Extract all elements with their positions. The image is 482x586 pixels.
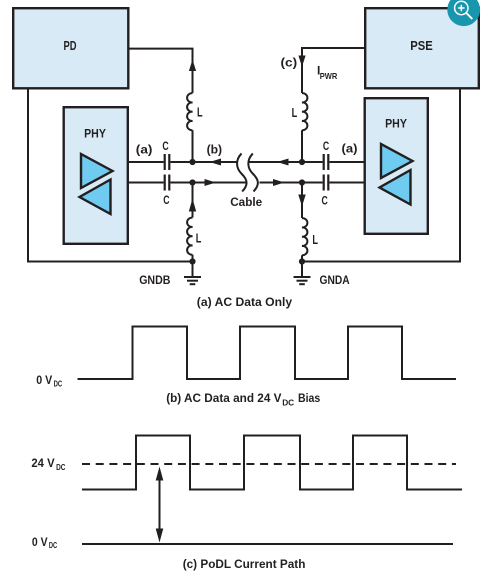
- svg-text:DC: DC: [56, 462, 65, 472]
- svg-text:C: C: [162, 139, 169, 153]
- capacitor C3 (right upper): [324, 154, 329, 170]
- svg-text:DC: DC: [49, 540, 57, 550]
- PSE box: [365, 8, 479, 88]
- arrow down toward inductor: [298, 195, 305, 207]
- cable break left squiggle: [237, 154, 247, 192]
- wire C4 to PHY right lower: [330, 182, 365, 184]
- dashed 24 VDC line: [82, 463, 456, 465]
- inductor L bottom-right: [302, 218, 307, 255]
- svg-text:PD: PD: [64, 38, 77, 53]
- svg-text:PSE: PSE: [410, 38, 433, 53]
- svg-text:C: C: [322, 194, 329, 208]
- PHY right rx buffer triangle: [380, 170, 411, 205]
- wire cable row2 right: [260, 182, 323, 184]
- svg-text:(a) AC Data Only: (a) AC Data Only: [197, 295, 293, 309]
- waveform (c) square wave: [82, 436, 462, 490]
- svg-text:GNDA: GNDA: [320, 273, 350, 287]
- arrow row1 right (pointing left): [277, 159, 289, 166]
- arrow up toward node B2: [189, 199, 196, 212]
- wire inductor to GNDB rail: [192, 255, 194, 262]
- inductor L top-left: [187, 93, 192, 130]
- node B2 junction dot: [189, 179, 195, 185]
- node A1 junction dot: [299, 159, 305, 165]
- inductor L top-right: [302, 93, 307, 130]
- PHY left rx buffer triangle: [80, 180, 111, 215]
- 0 VDC baseline (c): [82, 543, 453, 545]
- svg-text:24 V: 24 V: [31, 456, 54, 470]
- waveform (b) square wave: [78, 327, 457, 380]
- wire inductor to GNDA rail: [301, 255, 303, 261]
- svg-text:DC: DC: [54, 379, 63, 389]
- svg-text:PWR: PWR: [320, 71, 338, 81]
- arrow row2 right (pointing right): [273, 179, 285, 186]
- svg-text:PHY: PHY: [385, 117, 407, 131]
- svg-text:(a): (a): [342, 141, 358, 155]
- PHY block right: [365, 98, 428, 234]
- wire inductor to node B1: [192, 130, 194, 162]
- node GNDB junction dot: [189, 258, 195, 264]
- inductor L bottom-left: [187, 218, 192, 255]
- svg-text:Bias: Bias: [298, 391, 321, 405]
- capacitor C1 (left upper): [165, 154, 170, 170]
- svg-text:L: L: [197, 105, 203, 120]
- capacitor C4 (right lower): [324, 175, 329, 191]
- PHY block left: [64, 107, 128, 244]
- svg-text:(b): (b): [207, 143, 223, 157]
- wire PHY-left upper to capacitor C1: [129, 161, 164, 163]
- node A2 junction dot: [299, 179, 305, 185]
- node B1 junction dot: [189, 159, 195, 165]
- arrow up toward PD: [189, 60, 196, 72]
- arrow down IPWR: [298, 56, 305, 67]
- svg-text:L: L: [196, 231, 202, 246]
- svg-text:L: L: [312, 232, 318, 247]
- svg-text:(c): (c): [281, 56, 298, 70]
- svg-text:GNDB: GNDB: [139, 273, 170, 287]
- svg-text:(b) AC Data and 24 V: (b) AC Data and 24 V: [166, 391, 281, 405]
- svg-text:C: C: [163, 193, 170, 207]
- svg-text:(c) PoDL Current Path: (c) PoDL Current Path: [183, 557, 306, 571]
- PD box: [13, 8, 128, 88]
- svg-text:C: C: [323, 139, 330, 153]
- PHY right tx buffer triangle: [381, 144, 413, 178]
- wire cable row1 right: [249, 161, 323, 163]
- wire PHY-left lower to capacitor C2: [129, 182, 164, 184]
- svg-text:0 V: 0 V: [36, 373, 52, 387]
- wire C1 to cable row1 left: [171, 161, 237, 163]
- svg-text:(a): (a): [136, 143, 153, 157]
- zoom magnifier icon: [447, 0, 480, 26]
- wire C3 to PHY right upper: [330, 161, 365, 163]
- wire C2 to cable row2 left: [171, 182, 247, 184]
- PHY left tx buffer triangle: [81, 154, 113, 188]
- wire PD to top-left inductor: [129, 49, 193, 93]
- wire inductor to node A1: [301, 130, 303, 162]
- capacitor C2 (left lower): [165, 175, 170, 191]
- wire GNDA rail to PSE: [302, 89, 460, 262]
- svg-text:L: L: [292, 105, 298, 120]
- svg-text:DC: DC: [282, 397, 294, 407]
- wire PD bottom to GNDB rail: [28, 89, 193, 262]
- svg-text:Cable: Cable: [230, 195, 262, 209]
- ground GNDB: [184, 262, 201, 285]
- cable break right squiggle: [248, 154, 258, 192]
- arrow row1 left (pointing left): [210, 159, 222, 166]
- svg-text:PHY: PHY: [84, 127, 106, 141]
- wire PSE to top-right inductor: [302, 48, 365, 93]
- arrow row2 left (pointing right): [205, 179, 217, 186]
- voltage span arrow (24V to 0V): [156, 467, 164, 543]
- wire node B2 down to bottom-left inductor: [192, 183, 194, 218]
- wire node A2 down to bottom-right inductor: [301, 183, 303, 219]
- node GNDA junction dot: [299, 258, 305, 264]
- svg-text:0 V: 0 V: [32, 535, 48, 549]
- ground GNDA: [294, 262, 311, 285]
